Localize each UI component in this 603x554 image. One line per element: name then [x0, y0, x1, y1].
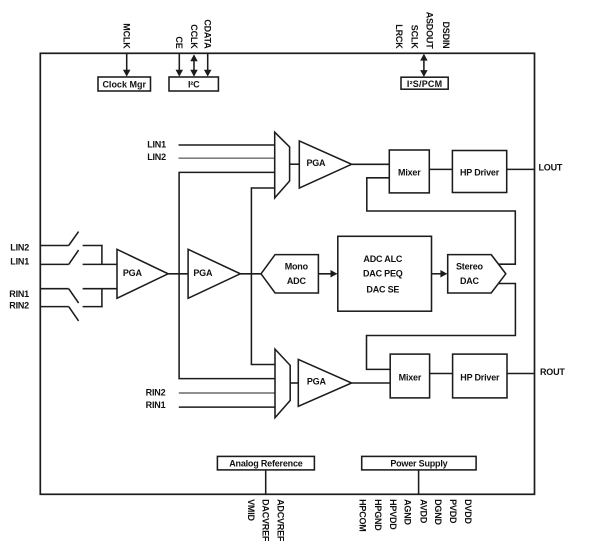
svg-text:AVDD: AVDD [418, 499, 428, 524]
svg-text:ADC ALC: ADC ALC [363, 254, 402, 264]
svg-text:HP Driver: HP Driver [460, 167, 500, 177]
wire CE arrow [178, 53, 180, 75]
block Mixer L [389, 150, 429, 193]
svg-text:DVDD: DVDD [463, 499, 473, 524]
wire MCLK arrow [126, 53, 128, 75]
wire ADC-DSP arrow [318, 273, 336, 275]
wire I2S arrow [423, 55, 425, 76]
switch LIN2 [69, 232, 79, 246]
mux right [275, 349, 290, 418]
svg-text:ASDOUT: ASDOUT [425, 12, 435, 50]
svg-text:HPCOM: HPCOM [357, 499, 367, 531]
svg-text:Stereo: Stereo [456, 261, 484, 271]
wire DAC-mixerR feedback [367, 284, 516, 370]
svg-text:LIN2: LIN2 [147, 152, 166, 162]
svg-text:LRCK: LRCK [394, 24, 404, 49]
wire PGAb-mixer [352, 382, 391, 384]
svg-text:PGA: PGA [306, 158, 326, 168]
svg-text:HPGND: HPGND [373, 499, 383, 531]
wire mixerL-HP [429, 168, 452, 170]
wire RIN2 row [179, 392, 276, 394]
svg-text:RIN2: RIN2 [146, 388, 166, 398]
svg-text:DAC: DAC [460, 276, 480, 286]
wire DSP-DAC arrow [432, 273, 447, 275]
svg-text:LIN1: LIN1 [147, 140, 166, 150]
wire CDATA arrow [207, 53, 209, 75]
block HP Driver L [452, 151, 506, 193]
wire LIN1 row [179, 144, 276, 146]
svg-text:LIN1: LIN1 [10, 257, 29, 267]
wire RIN2 stub [40, 306, 68, 308]
svg-text:Mono: Mono [285, 261, 309, 271]
svg-text:Mixer: Mixer [399, 373, 422, 383]
block Power Supply [362, 456, 476, 470]
svg-text:CDATA: CDATA [203, 19, 213, 49]
svg-text:DSDIN: DSDIN [441, 21, 451, 48]
amp PGA input [117, 249, 168, 298]
wire PGA1-PGA2 [168, 273, 188, 275]
block I2S/PCM [401, 77, 448, 89]
wire LIN2 row [179, 157, 276, 159]
wire muxB-PGA [290, 382, 298, 384]
svg-text:MCLK: MCLK [122, 23, 132, 49]
svg-text:RIN1: RIN1 [9, 289, 29, 299]
mux left [275, 132, 290, 198]
wire PGAt-mixer [352, 163, 390, 165]
wire LIN1 out [83, 263, 117, 265]
svg-text:CE: CE [174, 36, 184, 48]
svg-text:LOUT: LOUT [539, 162, 563, 172]
wire PGA2-ADC [240, 273, 261, 275]
wire RIN1 stub [40, 288, 68, 290]
block HP Driver R [453, 354, 507, 398]
switch LIN1 [69, 250, 79, 264]
block Mixer R [390, 354, 429, 398]
svg-text:RIN2: RIN2 [9, 300, 29, 310]
svg-text:DAC SE: DAC SE [366, 284, 399, 294]
svg-text:HPVDD: HPVDD [388, 499, 398, 530]
wire LIN2 stub [40, 245, 68, 247]
amp PGA right [298, 359, 351, 406]
wire muxT-PGA [290, 163, 300, 165]
svg-text:I²S/PCM: I²S/PCM [407, 79, 442, 89]
svg-text:Clock Mgr: Clock Mgr [102, 80, 146, 90]
svg-text:RIN1: RIN1 [146, 400, 166, 410]
svg-text:Analog Reference: Analog Reference [229, 459, 303, 469]
svg-text:VMID: VMID [246, 499, 256, 521]
svg-text:ADCVREF: ADCVREF [275, 499, 285, 542]
block I2C [169, 77, 218, 91]
wire RIN2 out [83, 306, 103, 308]
svg-text:ROUT: ROUT [540, 367, 565, 377]
svg-text:Power Supply: Power Supply [390, 459, 447, 469]
switch RIN2 [69, 307, 79, 321]
svg-text:SCLK: SCLK [410, 25, 420, 49]
switch RIN1 [69, 289, 79, 303]
wire LIN2 out [83, 245, 103, 247]
block DSP [338, 236, 432, 311]
wire cross A [179, 171, 275, 173]
chip outline box [40, 53, 534, 494]
block Analog Reference [217, 456, 314, 470]
block Clock Mgr [98, 77, 151, 91]
wire DAC-mixerL feedback [367, 178, 516, 264]
wire analog ref stub [265, 470, 267, 494]
svg-text:PGA: PGA [307, 377, 327, 387]
wire ROUT [507, 373, 535, 375]
svg-text:PVDD: PVDD [448, 499, 458, 524]
svg-text:PGA: PGA [123, 268, 143, 278]
block Mono ADC [261, 255, 318, 293]
svg-text:ADC: ADC [287, 276, 307, 286]
wire LIN1 stub [40, 263, 68, 265]
svg-text:DGND: DGND [433, 499, 443, 525]
svg-text:Mixer: Mixer [398, 167, 421, 177]
svg-text:HP Driver: HP Driver [460, 373, 500, 383]
amp PGA left [299, 141, 351, 188]
wire RIN1 row [179, 406, 276, 408]
amp PGA second [188, 249, 240, 298]
wire cross B [251, 187, 275, 189]
wire LOUT [507, 168, 535, 170]
svg-text:PGA: PGA [193, 268, 213, 278]
block Stereo DAC [448, 255, 506, 293]
svg-text:AGND: AGND [403, 499, 413, 525]
svg-text:LIN2: LIN2 [10, 243, 29, 253]
svg-text:DACVREF: DACVREF [261, 499, 271, 542]
svg-text:I²C: I²C [188, 80, 200, 90]
wire power stub [418, 470, 420, 494]
wire mixerR-HP [430, 373, 453, 375]
svg-text:DAC PEQ: DAC PEQ [363, 269, 403, 279]
wire CCLK arrow [193, 56, 195, 76]
svg-text:CCLK: CCLK [189, 24, 199, 49]
wire RIN1 out [83, 288, 117, 290]
